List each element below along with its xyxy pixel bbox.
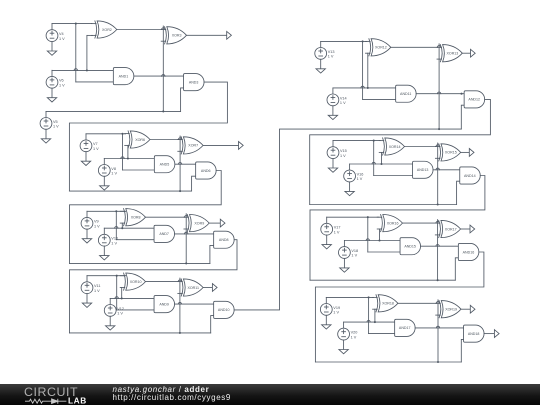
svg-text:XOR6: XOR6 [135, 138, 145, 142]
wire V12 branch up to XOR10 input B [121, 288, 123, 299]
AND gate AND5 [154, 156, 175, 173]
wire carry-in up to XOR3 input B [162, 26, 164, 111]
wire hop at XOR11 input A [178, 280, 181, 282]
wire V10 to AND7 input A [104, 227, 154, 229]
wire hop crossing [437, 92, 440, 94]
svg-text:1 V: 1 V [94, 225, 100, 229]
node junction carry stage 4 [179, 332, 181, 334]
svg-text:V7: V7 [93, 142, 98, 146]
voltage source V9 1 V [81, 211, 100, 229]
svg-text:XOR18: XOR18 [382, 302, 394, 306]
wire hop crossing [361, 86, 364, 88]
XOR gate XOR11 [178, 279, 203, 296]
svg-text:V10: V10 [111, 237, 118, 241]
svg-text:LAB: LAB [68, 395, 87, 405]
XOR gate XOR14 [379, 138, 404, 155]
wire AND13 out to AND14 input A [433, 169, 460, 171]
svg-text:1 V: 1 V [328, 55, 334, 59]
node junction V17 branch [367, 216, 369, 218]
svg-text:AND16: AND16 [463, 250, 475, 254]
XOR gate XOR19 [436, 301, 461, 318]
CircuitLab logo [23, 384, 103, 405]
node junction V20 branch [374, 321, 376, 323]
wire carry up to AND14 input B [457, 181, 460, 204]
svg-text:1 V: 1 V [53, 125, 59, 129]
AND gate AND3 [184, 74, 205, 91]
wire hop at XOR15 input A [436, 145, 439, 147]
svg-text:XOR12: XOR12 [375, 46, 387, 50]
output arrow S6 [470, 225, 475, 233]
XOR gate XOR6 [125, 131, 150, 148]
svg-text:V14: V14 [340, 96, 347, 100]
wire XOR17 out to sum output S6 [461, 228, 470, 230]
wire XOR13 out to sum output S4 [462, 52, 470, 54]
wire carry up to AND16 input B [455, 258, 458, 280]
wire carry vertical to XOR13 input B [438, 44, 440, 129]
output arrow S2 [220, 219, 225, 227]
AND gate AND13 [413, 161, 434, 178]
wire XOR15 out to sum output S5 [461, 151, 470, 153]
node junction V10 branch [121, 227, 123, 229]
svg-text:1 V: 1 V [357, 177, 363, 181]
output arrow S1 [239, 142, 244, 150]
wire carry up to AND10 input B [211, 316, 214, 333]
node junction carry stage 8 [437, 361, 439, 363]
svg-text:V19: V19 [333, 306, 340, 310]
svg-text:V9: V9 [94, 220, 99, 224]
wire hop at XOR7 input A [178, 138, 181, 140]
output arrow S4 [471, 49, 476, 57]
wire XOR14 out to XOR15 input A [405, 146, 437, 148]
wire V16 to AND13 input A [350, 163, 413, 165]
node junction carry stage 6 [437, 203, 439, 205]
XOR gate XOR10 [120, 273, 145, 290]
wire V9 to XOR8 input A [87, 210, 126, 212]
XOR gate XOR2 [92, 21, 117, 38]
svg-text:AND5: AND5 [160, 163, 170, 167]
wire V16 branch up to XOR14 input B [381, 152, 383, 164]
XOR gate XOR13 [437, 45, 462, 62]
wire carry row stage 7 [310, 279, 455, 281]
node junction carry stage 7 [437, 279, 439, 281]
wire V8 to AND5 input A [104, 158, 154, 160]
node junction V16 branch [380, 163, 382, 165]
svg-text:V5: V5 [53, 120, 58, 124]
voltage source V19 1 V [320, 297, 340, 315]
AND gate AND18 [464, 325, 485, 342]
wire V9 branch down to AND7 input B [115, 211, 117, 239]
wire carry vertical to XOR9 input B [185, 214, 187, 264]
wire V18 branch up to XOR16 input B [379, 229, 381, 241]
ground for V16 [345, 182, 354, 196]
ground for V15 [328, 159, 337, 173]
wire V19 branch down to AND17 input B [368, 297, 370, 333]
XOR gate XOR7 [178, 137, 203, 154]
svg-text:1 V: 1 V [94, 289, 100, 293]
wire hop at XOR19 input A [436, 302, 439, 304]
svg-text:1 V: 1 V [93, 147, 99, 151]
wire hop at XOR3 input A [162, 28, 165, 30]
svg-text:AND6: AND6 [201, 169, 211, 173]
wire carry row stage 3 [70, 262, 210, 264]
svg-text:AND7: AND7 [159, 232, 169, 236]
wire AND10 carry out routed up to stage 5 [234, 129, 461, 310]
wire into XOR2 input B [87, 34, 93, 36]
node junction V12 branch [121, 297, 123, 299]
svg-text:XOR19: XOR19 [445, 308, 457, 312]
XOR gate XOR15 [435, 144, 460, 161]
node junction V15 branch [373, 140, 375, 142]
wire V6 to AND1 input A [52, 69, 113, 71]
XOR gate XOR9 [184, 215, 209, 232]
voltage source V11 1 V [81, 276, 100, 294]
AND gate AND9 [154, 296, 175, 313]
svg-text:1 V: 1 V [340, 101, 346, 105]
AND gate AND8 [214, 231, 235, 248]
wire AND9 out to AND10 input A [175, 303, 214, 305]
svg-text:V4: V4 [59, 32, 64, 36]
wire into AND13 input B [374, 175, 413, 177]
wire hop crossing [178, 163, 181, 165]
wire hop crossing [436, 244, 439, 246]
XOR gate XOR8 [120, 209, 145, 226]
voltage source V17 1 V [321, 217, 341, 235]
svg-text:XOR8: XOR8 [131, 216, 141, 220]
svg-text:XOR14: XOR14 [389, 145, 401, 149]
wire hop crossing [436, 326, 439, 328]
svg-text:1 V: 1 V [59, 37, 65, 41]
ground for V4 [47, 42, 56, 56]
wire into AND11 input B [363, 98, 396, 100]
svg-text:XOR7: XOR7 [188, 144, 198, 148]
ground for V9 [82, 229, 91, 243]
wire carry row stage 2 [69, 190, 191, 192]
voltage source V14 1 V [327, 88, 347, 106]
wire V15 branch down to AND13 input B [373, 141, 375, 176]
svg-text:V11: V11 [94, 284, 100, 288]
AND gate AND7 [154, 225, 175, 242]
svg-text:1 V: 1 V [334, 230, 340, 234]
wire carry-in up to AND3 input B [181, 88, 184, 112]
ground for V14 [328, 106, 337, 120]
wire XOR10 out to XOR11 input A [146, 281, 179, 283]
svg-text:AND9: AND9 [159, 302, 169, 306]
wire AND7 out to AND8 input A [175, 233, 214, 235]
voltage source V13 1 V [315, 41, 335, 59]
XOR gate XOR18 [373, 295, 398, 312]
wire hop at XOR17 input A [436, 221, 439, 223]
svg-text:V8: V8 [111, 167, 116, 171]
wire XOR3 out to sum output S0 [187, 34, 227, 36]
node junction carry stage 2 [179, 190, 181, 192]
AND gate AND10 [214, 301, 235, 318]
svg-text:AND18: AND18 [468, 332, 480, 336]
output arrow S5 [469, 149, 474, 157]
wire V20 branch up to XOR18 input B [374, 309, 376, 322]
voltage source V18 1 V [339, 241, 359, 259]
ground for V19 [322, 315, 331, 329]
svg-text:1 V: 1 V [351, 254, 357, 258]
svg-text:XOR2: XOR2 [102, 28, 112, 32]
node junction V13 branch [362, 40, 364, 42]
svg-text:XOR17: XOR17 [445, 227, 457, 231]
wire hop crossing [162, 75, 165, 77]
svg-text:V13: V13 [328, 50, 335, 54]
wire XOR11 out to sum output S3 [203, 287, 212, 289]
voltage source V15 1 V [327, 141, 347, 159]
wire V15 to XOR14 input A [333, 140, 380, 142]
wire AND18 out to carry output [484, 333, 494, 335]
wire carry vertical to XOR15 input B [437, 143, 439, 205]
ground for V6 [47, 88, 56, 102]
svg-text:XOR11: XOR11 [187, 286, 199, 290]
svg-text:AND13: AND13 [417, 168, 429, 172]
svg-text:V17: V17 [334, 226, 341, 230]
wire AND3 carry out routed to stage 2 [69, 82, 227, 191]
wire AND6 carry out routed to stage 3 [70, 171, 222, 264]
wire carry up to AND18 input B [461, 339, 463, 362]
wire into AND1 input B [76, 81, 114, 83]
wire V19 to XOR18 input A [326, 296, 373, 298]
wire V17 branch down to AND15 input B [367, 217, 369, 252]
XOR gate XOR16 [377, 215, 402, 232]
node junction V14 branch [367, 87, 369, 89]
wire hop at XOR9 input A [185, 215, 188, 217]
svg-text:1 V: 1 V [117, 312, 123, 316]
AND gate AND16 [458, 243, 479, 260]
wire AND5 out to AND6 input A [175, 163, 196, 165]
wire V18 to AND15 input A [344, 240, 400, 242]
wire V14 branch up to XOR12 input B [367, 53, 369, 88]
voltage source V16 1 V [344, 164, 364, 182]
svg-text:V15: V15 [340, 149, 347, 153]
footer bar [0, 384, 540, 405]
ground for V5 [41, 129, 50, 143]
wire hop crossing [115, 297, 118, 299]
svg-text:AND8: AND8 [219, 238, 229, 242]
wire hop crossing [121, 157, 124, 159]
svg-text:XOR10: XOR10 [130, 280, 142, 284]
ground for V8 [100, 176, 109, 190]
wire carry row stage 6 [310, 204, 457, 206]
svg-text:XOR15: XOR15 [445, 151, 457, 155]
node dot on AND12 input A [460, 93, 462, 95]
wire V12 to AND9 input A [110, 297, 154, 299]
svg-text:1 V: 1 V [340, 154, 346, 158]
wire carry up to AND6 input B [192, 176, 196, 191]
wire AND16 carry out routed to stage 8 [315, 252, 484, 362]
wire V11 branch down to AND9 input B [116, 276, 118, 310]
wire hop crossing [367, 320, 370, 322]
svg-text:V12: V12 [117, 307, 124, 311]
wire AND17 out to AND18 input A [415, 327, 463, 329]
wire XOR8 out to XOR9 input A [146, 216, 185, 218]
wire into AND17 input B [369, 333, 395, 335]
XOR gate XOR12 [366, 39, 391, 56]
AND gate AND6 [196, 162, 217, 179]
wire carry row stage 8 [315, 361, 461, 363]
AND gate AND1 [113, 68, 134, 85]
node junction carry stage 3 [185, 262, 187, 264]
svg-text:1 V: 1 V [351, 335, 357, 339]
wire V11 to XOR10 input A [87, 275, 126, 277]
voltage source V20 1 V [338, 322, 358, 340]
svg-text:XOR16: XOR16 [387, 221, 399, 225]
wire V7 to XOR6 input A [86, 133, 126, 135]
wire AND1 out to AND3 input A [134, 75, 183, 77]
output arrow carry out [494, 330, 499, 338]
wire carry row stage 4 [70, 332, 211, 334]
wire XOR7 out to sum output S1 [203, 144, 238, 146]
svg-text:AND12: AND12 [468, 98, 480, 102]
wire V5 carry-in [46, 110, 181, 112]
node junction V7 branch [121, 133, 123, 135]
wire hop crossing [372, 162, 375, 164]
ground for V17 [322, 235, 331, 249]
node junction V4 branch [75, 23, 77, 25]
voltage source V6 1 V [46, 70, 65, 88]
svg-text:1 V: 1 V [111, 172, 117, 176]
svg-text:AND17: AND17 [399, 326, 411, 330]
node junction V9 branch [115, 210, 117, 212]
wire AND11 out to AND12 input A [416, 93, 464, 95]
wire hop crossing [436, 168, 439, 170]
wire XOR18 out to XOR19 input A [398, 302, 437, 304]
ground for V13 [316, 59, 325, 73]
wire V4 branch down to AND1 input B [75, 24, 77, 82]
node junction V19 branch [368, 296, 370, 298]
wire hop crossing [115, 227, 118, 229]
svg-text:XOR9: XOR9 [194, 221, 204, 225]
svg-text:AND10: AND10 [218, 308, 230, 312]
voltage source V12 1 V [104, 298, 124, 316]
node junction V18 branch [378, 239, 380, 241]
wire V8 branch up to XOR6 input B [127, 145, 129, 158]
svg-text:AND15: AND15 [404, 245, 416, 249]
output arrow S0 [227, 31, 232, 39]
wire AND12 carry out routed to stage 6 [310, 99, 491, 204]
wire AND14 carry out routed to stage 7 [310, 176, 485, 281]
node junction carry stage 5 [438, 128, 440, 130]
svg-text:XOR13: XOR13 [447, 52, 459, 56]
output arrow S3 [212, 284, 217, 292]
wire hop crossing [366, 239, 369, 241]
wire hop at XOR13 input A [437, 46, 440, 48]
wire hop crossing [74, 69, 77, 71]
wire XOR6 out to XOR7 input A [150, 139, 179, 141]
wire XOR12 out to XOR13 input A [391, 46, 438, 48]
node junction V6 branch [86, 69, 88, 71]
wire V17 to XOR16 input A [327, 216, 379, 218]
ground for V10 [100, 246, 109, 260]
ground for V12 [106, 316, 115, 330]
voltage source V8 1 V [98, 158, 117, 176]
wire XOR16 out to XOR17 input A [403, 222, 437, 224]
ground for V7 [81, 152, 90, 166]
voltage source V5 1 V [40, 111, 59, 129]
wire V10 branch up to XOR8 input B [121, 223, 123, 228]
XOR gate XOR17 [435, 220, 460, 237]
wire into AND15 input B [368, 251, 400, 253]
svg-text:V20: V20 [351, 331, 358, 335]
wire into AND9 input B [117, 309, 155, 311]
svg-text:V16: V16 [357, 172, 364, 176]
svg-text:1 V: 1 V [59, 84, 65, 88]
output arrow S7 [470, 305, 475, 313]
svg-text:AND11: AND11 [400, 92, 411, 96]
wire carry up to AND12 input B [461, 105, 464, 129]
wire V6 branch up to XOR2 input B [86, 35, 88, 70]
ground for V11 [82, 294, 91, 308]
wire carry vertical to XOR19 input B [437, 300, 439, 362]
wire hop crossing [185, 232, 188, 234]
wire carry vertical to XOR17 input B [437, 220, 439, 281]
wire into AND7 input B [116, 239, 154, 241]
wire AND8 carry out routed to stage 4 [70, 240, 238, 333]
wire V20 to AND17 input A [344, 321, 395, 323]
svg-text:AND3: AND3 [189, 80, 199, 84]
AND gate AND14 [460, 167, 481, 184]
wire carry vertical to XOR11 input B [179, 278, 181, 333]
AND gate AND12 [464, 91, 485, 108]
ground for V20 [339, 340, 348, 354]
wire V13 branch down to AND11 input B [362, 41, 364, 99]
AND gate AND15 [400, 238, 421, 255]
voltage source V7 1 V [80, 134, 99, 152]
node junction carry-in [162, 110, 164, 112]
wire V7 branch down to AND5 input B [122, 134, 124, 170]
svg-text:AND1: AND1 [119, 74, 129, 78]
node junction V11 branch [116, 275, 118, 277]
voltage source V4 1 V [46, 24, 65, 42]
wire V14 to AND11 input A [333, 87, 396, 89]
svg-text:XOR3: XOR3 [172, 34, 182, 38]
wire AND15 out to AND16 input A [421, 245, 459, 247]
AND gate AND11 [396, 85, 417, 102]
svg-text:1 V: 1 V [111, 241, 117, 245]
wire into AND5 input B [123, 169, 155, 171]
wire V4 to XOR2 input A [52, 23, 92, 25]
XOR gate XOR3 [161, 27, 186, 44]
voltage source V10 1 V [98, 228, 118, 246]
svg-text:AND14: AND14 [464, 174, 476, 178]
wire V13 to XOR12 input A [321, 40, 367, 42]
wire XOR9 out to sum output S2 [209, 222, 220, 224]
wire hop crossing [178, 302, 181, 304]
svg-text:1 V: 1 V [333, 311, 339, 315]
svg-text:V6: V6 [59, 79, 64, 83]
svg-text:V18: V18 [351, 249, 358, 253]
ground for V18 [340, 258, 349, 272]
node junction V8 branch [127, 157, 129, 159]
wire carry vertical to XOR7 input B [179, 136, 181, 191]
wire carry up to AND8 input B [210, 245, 214, 263]
wire XOR2 out to XOR3 input A [117, 29, 162, 31]
AND gate AND17 [395, 319, 416, 336]
wire XOR19 out to sum output S7 [461, 308, 470, 310]
